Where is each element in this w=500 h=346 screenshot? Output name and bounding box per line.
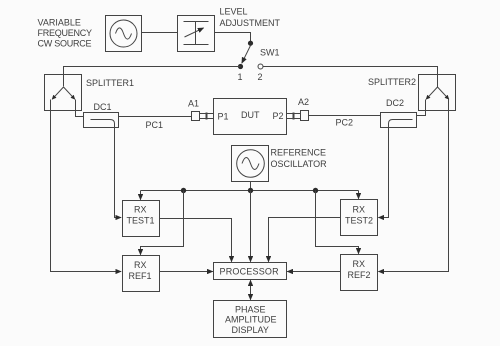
display PHASE AMPLITUDE DISPLAY	[214, 301, 287, 338]
svg-text:TEST2: TEST2	[345, 216, 373, 226]
svg-text:DUT: DUT	[241, 110, 260, 120]
node junction J2	[248, 188, 253, 193]
svg-text:TEST1: TEST1	[127, 216, 155, 226]
wire RX TEST2 to processor	[269, 218, 341, 262]
svg-text:A2: A2	[298, 97, 309, 107]
receiver RX TEST1	[123, 201, 160, 237]
svg-text:REF2: REF2	[348, 270, 371, 280]
svg-text:RX: RX	[353, 259, 366, 269]
coupler DC1	[84, 113, 119, 128]
svg-text:PHASE: PHASE	[235, 304, 266, 314]
wire SW1 pin2 to splitter2	[263, 67, 438, 88]
node junction J3	[313, 188, 318, 193]
DUT U2	[214, 99, 287, 135]
node junction J1	[181, 188, 186, 193]
wire PC1	[119, 116, 192, 118]
wire splitter1 right output to DC1	[76, 100, 84, 117]
attenuator A2	[287, 111, 309, 121]
receiver RX TEST2	[341, 200, 378, 236]
wire reference bus	[141, 190, 359, 192]
svg-text:A1: A1	[188, 99, 199, 109]
svg-text:VARIABLE: VARIABLE	[38, 18, 81, 28]
svg-text:DC1: DC1	[94, 102, 112, 112]
svg-text:DISPLAY: DISPLAY	[232, 325, 269, 335]
receiver RX REF1	[123, 256, 160, 292]
wire RX REF1 to processor	[160, 271, 213, 273]
svg-text:RX: RX	[353, 205, 366, 215]
attenuator A1	[192, 112, 214, 121]
svg-text:REF1: REF1	[129, 271, 152, 281]
svg-text:SPLITTER1: SPLITTER1	[86, 78, 134, 88]
wire splitter2 right output down to RX REF2	[378, 100, 448, 272]
oscillator REFERENCE OSCILLATOR	[232, 146, 269, 182]
svg-text:ADJUSTMENT: ADJUSTMENT	[220, 18, 281, 28]
wire RX TEST1 to processor	[160, 219, 232, 262]
svg-text:DC2: DC2	[386, 98, 404, 108]
wire junction J2 to processor	[250, 191, 252, 262]
wire processor to display (up arrow)	[250, 280, 252, 290]
svg-text:SPLITTER2: SPLITTER2	[368, 77, 416, 87]
processor	[214, 263, 287, 280]
receiver RX REF2	[341, 255, 378, 291]
svg-text:REFERENCE: REFERENCE	[271, 148, 327, 158]
svg-text:2: 2	[258, 72, 263, 82]
svg-text:CW SOURCE: CW SOURCE	[38, 39, 92, 49]
wire oscillator to bus	[250, 182, 252, 191]
wire RX REF2 to processor	[287, 271, 340, 273]
label REFERENCE OSCILLATOR	[271, 148, 328, 170]
svg-text:PROCESSOR: PROCESSOR	[220, 266, 280, 276]
svg-text:AMPLITUDE: AMPLITUDE	[225, 315, 277, 325]
wire bus end to RX TEST2	[358, 191, 360, 199]
wire DC2 coupled port to RX TEST2	[378, 128, 388, 218]
wire splitter1 left output down to RX REF1	[51, 100, 122, 272]
svg-text:FREQUENCY: FREQUENCY	[38, 28, 93, 38]
level adjuster U1	[178, 16, 215, 52]
svg-text:PC1: PC1	[146, 120, 164, 130]
svg-text:RX: RX	[134, 205, 147, 215]
wire SW1 pin1 to splitter1	[64, 67, 241, 87]
svg-text:PC2: PC2	[336, 118, 354, 128]
wire DC1 coupled port to RX TEST1	[115, 128, 122, 218]
label VARIABLE FREQUENCY CW SOURCE	[38, 18, 93, 49]
splitter SPLITTER2	[419, 75, 456, 111]
wire processor to display (down arrow)	[250, 290, 252, 300]
svg-text:LEVEL: LEVEL	[220, 6, 248, 16]
wire junction J3 to RX REF2	[316, 191, 359, 254]
svg-text:RX: RX	[134, 260, 147, 270]
wire bus end to RX TEST1	[140, 191, 142, 200]
svg-text:SW1: SW1	[260, 48, 280, 58]
wire level adjuster to SW1	[215, 33, 251, 42]
splitter SPLITTER1	[45, 75, 82, 111]
label LEVEL ADJUSTMENT	[220, 6, 281, 28]
svg-text:P1: P1	[218, 112, 229, 122]
CW source G1	[106, 16, 142, 52]
wire DC2 to splitter2 left output	[417, 100, 426, 116]
svg-text:OSCILLATOR: OSCILLATOR	[271, 159, 328, 169]
wire PC2	[309, 115, 381, 117]
wire source to level adjuster	[142, 32, 178, 34]
wire junction J1 to RX REF1	[141, 191, 184, 255]
coupler DC2	[381, 113, 417, 128]
svg-text:P2: P2	[273, 111, 284, 121]
svg-text:1: 1	[238, 72, 243, 82]
switch SW1	[238, 41, 263, 69]
